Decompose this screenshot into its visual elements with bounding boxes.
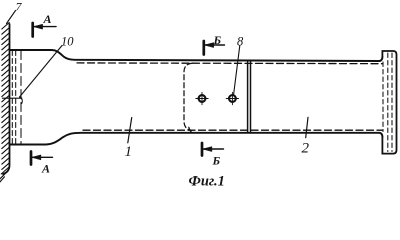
svg-text:Фиг.1: Фиг.1	[189, 174, 225, 190]
svg-text:А: А	[41, 162, 50, 176]
svg-text:7: 7	[16, 0, 23, 14]
svg-text:А: А	[43, 12, 52, 26]
svg-text:1: 1	[125, 144, 133, 160]
svg-text:Б: Б	[212, 154, 221, 168]
svg-text:8: 8	[237, 35, 244, 49]
svg-text:Б: Б	[213, 33, 222, 47]
svg-text:2: 2	[302, 141, 310, 157]
svg-text:10: 10	[61, 35, 74, 49]
